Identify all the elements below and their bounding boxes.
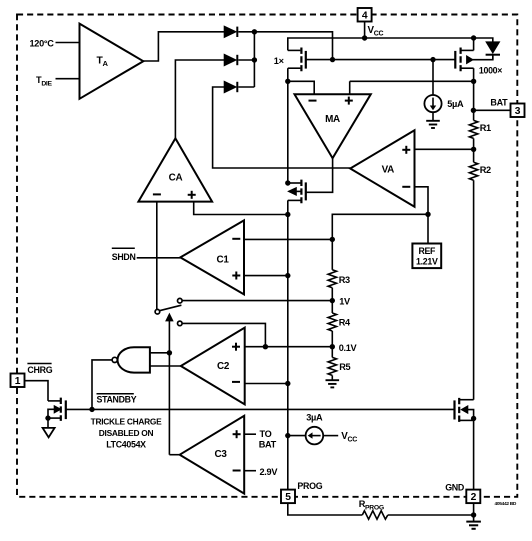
ground for 5uA source [426, 121, 440, 128]
svg-text:3: 3 [515, 106, 521, 117]
resistor R2 [469, 162, 477, 180]
junction CA+ PROG [285, 212, 290, 217]
wire C1+ to PROG net [244, 275, 288, 277]
junction 0.1V tap [330, 344, 335, 349]
svg-text:CA: CA [169, 173, 183, 184]
plus sign C3 [233, 430, 241, 438]
junction BAT node [471, 108, 476, 113]
wire M4 source to chassis ground [47, 418, 49, 428]
wire CA- to trickle switch [156, 202, 158, 310]
pin 3 box [511, 104, 525, 118]
svg-text:MA: MA [325, 114, 340, 125]
wire C2 output to NAND input [150, 365, 181, 367]
current source I2 3uA [288, 427, 338, 445]
transistor M2 1000x power PMOS [455, 38, 493, 81]
overline CHRG [27, 363, 51, 365]
junction NAND out on STANDBY gate line [89, 407, 94, 412]
wire switch throw2 to 0.1V line [182, 323, 265, 346]
svg-text:R3: R3 [339, 275, 350, 285]
op-amp VA [350, 130, 414, 206]
wire R3 to R4 [331, 288, 333, 313]
wire CA output up to diode D2 anode [175, 60, 224, 138]
transistor M5 divider disconnect [455, 398, 474, 422]
ground for R5 [326, 380, 340, 387]
junction diode bus top [252, 29, 257, 34]
resistor R1 [469, 120, 477, 138]
junction RPROG GND [471, 512, 476, 517]
wire BAT to pin 3 [473, 109, 510, 111]
diode D2 [225, 55, 255, 65]
svg-text:CHRG: CHRG [27, 365, 52, 375]
junction VA- REF [425, 212, 430, 217]
wire VA- to REF node [332, 187, 428, 240]
junction M1 drain MA- tap [285, 79, 290, 84]
wire C3 output to selector line [169, 454, 179, 456]
wire R4 to R5 [331, 331, 333, 357]
junction C2- PROG [285, 381, 290, 386]
wire M5 source to pin 2 GND [473, 420, 475, 489]
svg-text:2: 2 [471, 492, 477, 503]
svg-text:GND: GND [445, 482, 465, 492]
svg-text:DISABLED ON: DISABLED ON [99, 428, 154, 438]
svg-text:TO: TO [260, 429, 272, 439]
svg-text:1000×: 1000× [479, 65, 502, 75]
plus sign C2 [232, 343, 240, 351]
wire C3- stub 2.9V [244, 470, 256, 472]
wire NAND output to gate line [92, 360, 112, 410]
pin 4 wire [364, 22, 366, 39]
svg-text:STANDBY: STANDBY [97, 394, 137, 404]
minus sign C1 [232, 238, 240, 240]
svg-text:C2: C2 [217, 361, 230, 372]
wire gate drive rail [306, 59, 456, 61]
wire pin1 CHRG to M4 drain [25, 381, 49, 401]
svg-text:REF: REF [418, 246, 436, 256]
junction divider mid [471, 147, 476, 152]
wire MA- input stub [288, 81, 314, 94]
wire diode cathode bus [254, 32, 332, 87]
junction M2 source at VCC rail [471, 35, 476, 40]
svg-text:BAT: BAT [490, 97, 508, 107]
op-amp TA [80, 24, 144, 99]
pin 4 box [358, 8, 372, 22]
junction C1+ PROG [285, 273, 290, 278]
minus sign C2 [232, 381, 240, 383]
transistor M3 PROG mirror FET [288, 180, 306, 204]
junction M2 drain MA+ [471, 79, 476, 84]
wire MA+ input stub [349, 81, 351, 94]
svg-text:5µA: 5µA [447, 99, 464, 109]
transistor M1 1x sense PMOS [288, 48, 306, 72]
wire switch throw1 to 1V tap [182, 300, 332, 302]
svg-text:1: 1 [15, 376, 21, 387]
diode D1 [225, 27, 255, 37]
junction M4 source body [45, 415, 50, 420]
transistor M4 CHRG pull-down [48, 398, 66, 421]
voltage reference REF 1.21V box [412, 244, 441, 269]
junction M5 source body [471, 416, 476, 421]
svg-text:LTC4054X: LTC4054X [106, 439, 146, 449]
ground for pin 2 [466, 522, 481, 529]
minus sign C3 [233, 470, 241, 472]
svg-text:120°C: 120°C [30, 38, 55, 48]
minus sign MA [309, 100, 317, 102]
junction M3 source at mirror node [285, 180, 290, 185]
junction switch2 on C2+ line [263, 344, 268, 349]
wire R1 to R2 [473, 138, 475, 162]
svg-text:405442 BD: 405442 BD [495, 501, 517, 507]
wire C2- to PROG net [245, 383, 288, 385]
wire VA output riser to diode D3 anode [213, 87, 351, 168]
minus sign CA [153, 193, 161, 195]
wire C3+ stub TO BAT [244, 433, 256, 435]
resistor R4 [328, 313, 336, 331]
diode D3 [225, 82, 255, 92]
junction REF C1- R3 [330, 237, 335, 242]
pin 2 box [466, 490, 480, 504]
svg-text:C1: C1 [216, 254, 229, 265]
junction diode bus middle [252, 57, 257, 62]
plus sign VA [402, 146, 410, 154]
wire M2 drain to BAT and MA+ line [350, 81, 474, 120]
wire VA+ to R1 R2 divider [415, 148, 474, 150]
svg-text:R4: R4 [339, 317, 351, 327]
junction NAND in1 C3 out [167, 350, 172, 355]
svg-text:R5: R5 [339, 362, 350, 372]
svg-text:1V: 1V [339, 296, 351, 306]
wire PROG net vertical [287, 200, 289, 489]
svg-text:SHDN: SHDN [112, 252, 136, 262]
svg-text:2.9V: 2.9V [260, 467, 279, 477]
svg-text:PROG: PROG [297, 481, 322, 491]
wire pin 5 to RPROG [288, 504, 363, 515]
wire SHDN lead to C1 output [137, 257, 181, 259]
svg-text:4: 4 [362, 11, 368, 22]
wire VCC rail [288, 38, 493, 50]
NAND gate U1 [112, 347, 150, 372]
junction 3uA PROG [285, 433, 290, 438]
junction VCC pin4 [362, 35, 367, 40]
wire STANDBY gate line [66, 408, 455, 410]
pin 5 box [281, 490, 295, 504]
svg-text:C3: C3 [214, 449, 227, 460]
wire CA+ to PROG net [194, 202, 288, 215]
svg-text:VA: VA [382, 165, 395, 176]
wire R2 bottom to M5 drain [473, 180, 475, 400]
wire pin 2 to ground [473, 504, 475, 522]
resistor RPROG [362, 511, 388, 519]
wire 120C input to TA [56, 42, 80, 44]
svg-text:R2: R2 [480, 165, 491, 175]
wire M1 drain down to mirror node [287, 68, 289, 183]
current source I1 5uA [424, 60, 441, 121]
wire C2+ to 0.1V tap [245, 346, 333, 348]
wire REF box lead [427, 214, 429, 243]
svg-text:1.21V: 1.21V [416, 257, 438, 267]
svg-text:5: 5 [285, 492, 291, 503]
svg-text:R1: R1 [480, 123, 491, 133]
wire REF node down to R3 [331, 239, 333, 269]
wire MA output to mirror FET gate [306, 158, 333, 192]
wire R5 to ground [331, 375, 333, 380]
body diode of M2 [486, 42, 500, 60]
overline STANDBY [97, 393, 134, 395]
switch selector arrow from C3 [166, 314, 172, 454]
overline SHDN [112, 247, 135, 249]
wire TA output to diode D1 anode [143, 32, 224, 61]
junction gate rail at diode bus [330, 57, 335, 62]
pin 1 box [11, 374, 25, 388]
svg-text:3µA: 3µA [306, 413, 323, 423]
op-amp C1 [180, 220, 244, 294]
wire NAND input1 from C3 line [150, 352, 170, 354]
svg-text:TRICKLE CHARGE: TRICKLE CHARGE [91, 417, 162, 427]
resistor R3 [328, 270, 336, 288]
wire C1- to REF node [244, 238, 332, 240]
wire TDIE input to TA [56, 78, 80, 80]
plus sign C1 [232, 272, 240, 280]
junction 5uA tap on gate rail [430, 57, 435, 62]
op-amp C2 [181, 328, 245, 405]
svg-text:0.1V: 0.1V [339, 343, 358, 353]
minus sign VA [402, 186, 410, 188]
plus sign CA [188, 191, 196, 199]
resistor R5 [328, 357, 336, 375]
op-amp MA [295, 94, 371, 158]
ground hollow triangle [43, 428, 55, 437]
op-amp CA [138, 138, 212, 201]
junction 1V tap [330, 298, 335, 303]
wire RPROG to GND node [388, 514, 474, 516]
svg-text:BAT: BAT [259, 440, 277, 450]
plus sign MA [345, 97, 353, 105]
svg-text:1×: 1× [274, 56, 284, 66]
op-amp C3 [180, 416, 245, 494]
switch S1 trickle select [155, 298, 182, 325]
